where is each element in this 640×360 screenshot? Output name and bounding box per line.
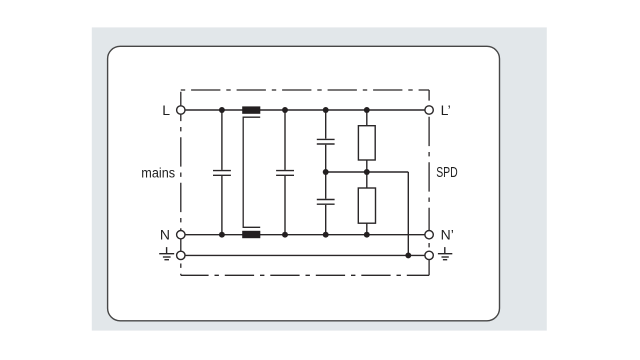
terminal L' <box>425 106 433 114</box>
capacitor C1 <box>213 110 231 235</box>
terminal N' <box>425 231 433 239</box>
node ground junction <box>405 252 411 258</box>
terminal N <box>177 231 185 239</box>
EMC enclosure dash-dot boundary top <box>181 89 429 91</box>
varistor RV1 <box>358 110 375 172</box>
capacitor C3 <box>317 110 335 172</box>
svg-text:SPD: SPD <box>436 165 458 181</box>
common-mode choke L1 <box>242 106 260 238</box>
svg-text:L: L <box>162 102 170 118</box>
EMC enclosure dash-dot boundary bottom <box>181 274 429 276</box>
terminal L <box>177 106 185 114</box>
capacitor C4 <box>317 172 335 235</box>
node N-C4 <box>323 232 329 238</box>
wire N line <box>185 234 426 236</box>
background panel <box>92 27 547 330</box>
wire ground line <box>185 254 426 256</box>
wire mid-to-ground drop <box>407 172 409 255</box>
svg-text:mains: mains <box>141 165 175 180</box>
varistor RV2 <box>358 172 375 235</box>
capacitor C2 <box>276 110 294 235</box>
ground left <box>159 247 174 260</box>
node L-RV1 <box>364 107 370 113</box>
terminal PE left <box>177 251 185 259</box>
EMC enclosure dash-dot boundary right <box>428 90 430 275</box>
node M-RV <box>364 169 370 175</box>
white card <box>108 46 500 321</box>
terminal PE right <box>425 251 433 259</box>
svg-text:N’: N’ <box>441 226 454 242</box>
wire mid rail (node M) <box>326 171 409 173</box>
node L-C3 <box>323 107 329 113</box>
svg-text:N: N <box>160 226 170 242</box>
node M-C3C4 <box>323 169 329 175</box>
node L-C1 <box>219 107 225 113</box>
EMC enclosure dash-dot boundary left <box>180 90 182 275</box>
node N-RV2 <box>364 232 370 238</box>
node N-C2 <box>282 232 288 238</box>
node N-C1 <box>219 232 225 238</box>
svg-text:L’: L’ <box>441 102 451 118</box>
ground right <box>438 247 452 260</box>
node L-C2 <box>282 107 288 113</box>
wire L line <box>185 109 426 111</box>
